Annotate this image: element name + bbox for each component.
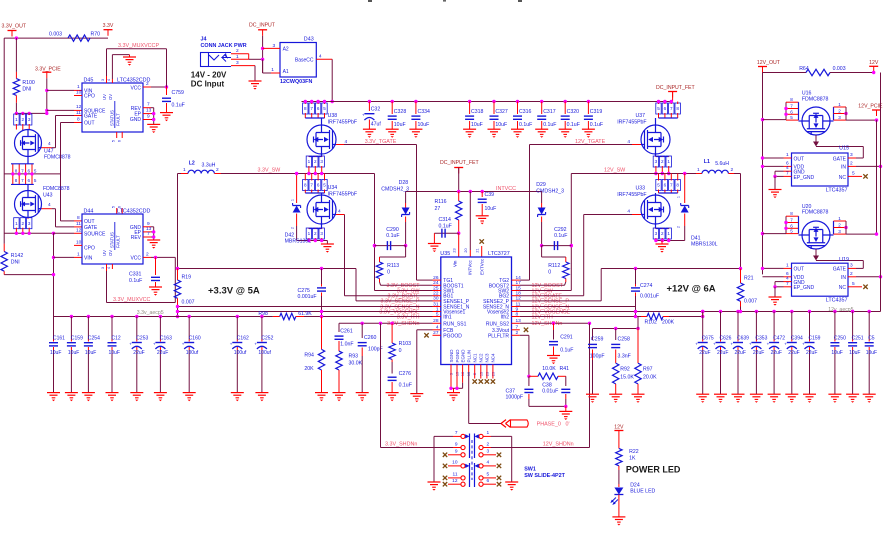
svg-text:22uF: 22uF — [717, 350, 728, 356]
capacitor C291 0.1uF — [553, 323, 555, 330]
ground — [785, 393, 798, 395]
svg-text:7: 7 — [786, 170, 789, 176]
svg-text:FAULT: FAULT — [116, 113, 121, 126]
svg-text:C161: C161 — [53, 335, 65, 341]
svg-text:L1: L1 — [704, 159, 710, 165]
pin J4 1 — [231, 58, 249, 60]
svg-text:0.1uF: 0.1uF — [543, 122, 556, 128]
transistor U47 FDMC8878 — [22, 129, 24, 132]
svg-text:0.003: 0.003 — [49, 32, 62, 38]
svg-text:0.001uF: 0.001uF — [640, 294, 659, 300]
svg-text:BaseCC: BaseCC — [295, 58, 314, 64]
pins D44 right GND EP REV — [143, 226, 151, 228]
svg-text:OUT: OUT — [794, 267, 805, 273]
pin EXTVCC 21 no connect — [481, 246, 483, 257]
svg-text:3.3V_MUXVCC: 3.3V_MUXVCC — [113, 297, 151, 303]
svg-text:5: 5 — [487, 472, 490, 478]
capacitor C318 10uF — [468, 100, 471, 103]
svg-text:PHASE_0: PHASE_0 — [537, 421, 561, 427]
wire RUN_SS1 line — [339, 322, 433, 324]
svg-text:GATE: GATE — [84, 114, 98, 120]
svg-text:A2: A2 — [283, 47, 289, 53]
pin boxes U47 1 2 3 — [14, 114, 19, 125]
svg-text:NC: NC — [839, 285, 847, 291]
svg-text:0.1uF: 0.1uF — [560, 348, 573, 354]
ground — [47, 392, 60, 394]
pin U19 GND 4 EP_GND 7 — [784, 281, 792, 283]
svg-text:3: 3 — [236, 60, 239, 66]
svg-text:7: 7 — [21, 168, 24, 173]
svg-text:0': 0' — [566, 421, 570, 427]
wire D44 OUT row — [74, 220, 82, 222]
ground — [750, 393, 763, 395]
svg-text:22uF: 22uF — [735, 350, 746, 356]
svg-text:24: 24 — [433, 280, 439, 286]
svg-text:20: 20 — [464, 248, 468, 252]
pin stub D44 CPO — [74, 244, 82, 246]
svg-text:23: 23 — [453, 248, 457, 252]
ground — [386, 392, 399, 394]
capacitor C261 1.0nF — [338, 323, 340, 332]
svg-text:10uF: 10uF — [471, 122, 483, 128]
svg-text:12CWQ03FN: 12CWQ03FN — [280, 79, 312, 85]
capacitor C317 0.1uF — [540, 100, 543, 103]
op-amp U19 LTC4357 — [792, 263, 849, 296]
svg-text:0.003: 0.003 — [833, 66, 846, 72]
svg-text:1: 1 — [183, 167, 186, 173]
pin U19 OUT 1 — [784, 267, 792, 269]
svg-text:C319: C319 — [590, 109, 603, 115]
svg-text:3: 3 — [320, 159, 323, 164]
pin stub D45 CPO — [74, 95, 82, 97]
wire U43 source row to D44 SOURCE — [4, 232, 53, 234]
wire right edge 12V vertical — [880, 73, 882, 312]
svg-text:D44: D44 — [84, 209, 94, 215]
svg-text:9: 9 — [147, 114, 150, 120]
resistor R94 20K — [321, 317, 323, 350]
ground — [255, 392, 268, 394]
svg-text:3: 3 — [273, 43, 276, 49]
svg-text:5: 5 — [852, 170, 855, 176]
svg-text:4: 4 — [48, 202, 51, 208]
svg-text:5: 5 — [112, 206, 116, 208]
svg-text:2: 2 — [216, 167, 219, 173]
svg-text:12V_PCIE: 12V_PCIE — [858, 104, 883, 110]
pin 18 BG2 — [512, 295, 520, 297]
svg-text:R112: R112 — [548, 263, 560, 269]
svg-text:0.007: 0.007 — [182, 300, 195, 306]
wire 12V SHDN down to switch — [589, 323, 591, 447]
resistor R116 27 — [458, 192, 460, 202]
svg-text:C274: C274 — [640, 283, 653, 289]
no connect marks SW1 right — [497, 453, 501, 457]
svg-text:1: 1 — [838, 216, 841, 221]
switch body SW1 — [470, 434, 475, 459]
svg-text:STATUS: STATUS — [110, 110, 115, 126]
resistor R142 DNI — [3, 244, 5, 252]
wire U43 gate — [42, 208, 52, 210]
svg-text:C259: C259 — [591, 337, 604, 343]
resistor R92 15.0K — [613, 363, 619, 384]
svg-text:2: 2 — [146, 81, 149, 87]
svg-text:R22: R22 — [629, 449, 639, 455]
pin 5 Ith1 — [433, 316, 441, 318]
svg-text:PGOOD: PGOOD — [443, 333, 462, 339]
diode D42 MBRS130L — [296, 174, 298, 204]
svg-text:2: 2 — [850, 160, 853, 166]
svg-text:C316: C316 — [519, 109, 532, 115]
svg-text:C12: C12 — [112, 335, 121, 341]
wire ITH/bus line segment right of R98 — [304, 316, 433, 318]
svg-text:0.01uF: 0.01uF — [542, 389, 558, 395]
svg-text:D43: D43 — [304, 37, 314, 43]
svg-text:RUN_SS2: RUN_SS2 — [486, 321, 509, 327]
svg-text:EXTVcc: EXTVcc — [480, 258, 485, 275]
ground — [130, 392, 143, 394]
svg-text:DC Input: DC Input — [191, 80, 225, 89]
svg-text:+: + — [713, 341, 716, 346]
pin U15 VDD 6 — [784, 165, 792, 167]
wire — [4, 37, 108, 39]
svg-text:+: + — [731, 341, 734, 346]
power flag 12V_OUT — [758, 66, 767, 68]
svg-text:3.3V_OUT: 3.3V_OUT — [2, 24, 27, 30]
svg-text:+: + — [254, 341, 257, 346]
svg-text:6: 6 — [28, 168, 31, 173]
svg-text:R41: R41 — [560, 366, 570, 372]
ground — [586, 393, 599, 395]
svg-text:LTC3727: LTC3727 — [488, 251, 510, 257]
ground — [106, 392, 119, 394]
capacitor C259 100pF — [592, 329, 594, 341]
node D44 VIN row — [52, 256, 55, 259]
svg-text:8: 8 — [15, 168, 18, 173]
svg-text:GATE: GATE — [833, 267, 847, 273]
op-amp U15 LTC4357 — [792, 153, 849, 186]
svg-text:7: 7 — [670, 106, 673, 111]
svg-text:7: 7 — [790, 218, 793, 223]
svg-text:7: 7 — [516, 325, 519, 331]
wire SENSE2_N — [520, 306, 636, 308]
pin D43 A1 — [262, 59, 264, 73]
wire BG2 pin — [520, 295, 584, 297]
power flag 3.3V — [104, 29, 113, 31]
capacitor C32 47uf — [368, 100, 371, 103]
pin 12 SENSE2_P — [512, 300, 520, 302]
svg-text:12: 12 — [452, 478, 458, 484]
svg-text:22uF: 22uF — [771, 350, 782, 356]
ground — [183, 392, 196, 394]
ground — [732, 393, 745, 395]
resistor R41 10.0K — [527, 375, 530, 378]
pin 4 FCB — [433, 329, 441, 331]
svg-text:0.1uF: 0.1uF — [439, 224, 452, 230]
ground — [123, 56, 136, 58]
svg-text:+: + — [802, 341, 805, 346]
svg-text:27: 27 — [433, 330, 439, 336]
ground — [696, 393, 709, 395]
wire comp row 12V — [593, 328, 639, 330]
svg-text:12V_OUT: 12V_OUT — [757, 60, 781, 66]
ground — [333, 392, 346, 394]
svg-text:7: 7 — [310, 183, 313, 188]
svg-text:22uF: 22uF — [788, 350, 799, 356]
svg-text:22uF: 22uF — [753, 350, 764, 356]
svg-text:MBRS130L: MBRS130L — [285, 238, 312, 244]
svg-text:IRF7455PbF: IRF7455PbF — [328, 120, 357, 126]
pin 2 PLLFLTR — [512, 334, 520, 336]
svg-text:BLUE LED: BLUE LED — [630, 488, 655, 494]
wire U47 gate — [42, 147, 52, 149]
svg-text:6: 6 — [790, 223, 793, 228]
power flag 12V — [869, 65, 878, 67]
svg-text:8: 8 — [516, 311, 519, 317]
svg-text:3: 3 — [838, 229, 841, 234]
svg-text:1000pF: 1000pF — [506, 395, 524, 401]
svg-text:47uf: 47uf — [371, 122, 382, 128]
wire DC_INPUT vertical — [262, 36, 264, 73]
svg-text:22uF: 22uF — [699, 350, 710, 356]
svg-text:10: 10 — [76, 239, 82, 245]
svg-text:7: 7 — [147, 102, 150, 108]
pin 14 TG2 — [512, 279, 520, 281]
svg-text:+: + — [695, 341, 698, 346]
svg-text:NC1: NC1 — [473, 353, 478, 362]
wire TG2 — [520, 279, 530, 281]
svg-text:0.1uF: 0.1uF — [386, 233, 399, 239]
svg-text:C252: C252 — [261, 335, 273, 341]
svg-text:+3.3V @ 5A: +3.3V @ 5A — [208, 286, 260, 297]
ground — [428, 481, 441, 483]
svg-text:8: 8 — [304, 106, 307, 111]
wire R19 bottom to bus — [177, 307, 179, 317]
svg-text:4: 4 — [436, 325, 439, 331]
svg-text:+: + — [362, 113, 365, 118]
svg-text:C159: C159 — [809, 335, 821, 341]
svg-text:6: 6 — [664, 106, 667, 111]
svg-text:STATUS: STATUS — [110, 232, 115, 248]
wire 12V ITH line — [520, 316, 641, 318]
capacitor C759 0.1uF — [165, 85, 168, 88]
svg-text:0.1uF: 0.1uF — [172, 103, 185, 109]
pin 8 Ith2 — [512, 316, 520, 318]
wire ITH to VOSENSE join — [701, 315, 704, 318]
svg-text:6: 6 — [790, 109, 793, 114]
ground — [559, 410, 572, 412]
svg-text:27: 27 — [435, 206, 441, 212]
svg-text:61.9K: 61.9K — [298, 311, 312, 317]
svg-text:2: 2 — [291, 227, 295, 229]
svg-text:25: 25 — [433, 285, 439, 291]
ground — [846, 393, 859, 395]
svg-text:1.0nF: 1.0nF — [340, 341, 353, 347]
pin boxes U43 1 2 3 — [27, 218, 29, 219]
ground — [82, 392, 95, 394]
pin J4 3 — [231, 65, 255, 67]
svg-text:SW1: SW1 — [524, 467, 536, 473]
wire D45 OUT to U47/U43 node — [74, 122, 82, 124]
pin stubs D44 top STATUS FAULT — [116, 208, 118, 214]
diode D24 BLUE LED — [618, 470, 620, 484]
svg-text:8: 8 — [676, 183, 679, 188]
svg-text:10uF: 10uF — [866, 350, 877, 356]
title text remnant — [368, 0, 372, 2]
svg-text:2: 2 — [22, 221, 25, 226]
svg-text:R97: R97 — [643, 367, 653, 373]
svg-text:EP_GND: EP_GND — [794, 175, 815, 181]
wire FCB to ground — [417, 329, 433, 331]
svg-text:10uF: 10uF — [85, 350, 96, 356]
svg-text:IRF7455PbF: IRF7455PbF — [617, 192, 646, 198]
capacitor C327 10uF — [492, 100, 495, 103]
svg-text:1K: 1K — [629, 456, 636, 462]
svg-text:Ith1: Ith1 — [443, 315, 452, 321]
pin 13 RUN_SS2 — [512, 322, 520, 324]
svg-text:2: 2 — [314, 231, 317, 236]
svg-text:C38: C38 — [542, 383, 552, 389]
wire U38 gate 3.3V_TGATE — [336, 144, 344, 146]
ground — [160, 112, 173, 114]
svg-text:PGND: PGND — [455, 349, 460, 363]
ground — [547, 355, 560, 357]
svg-text:DNI: DNI — [11, 260, 20, 266]
transistor U38 IRF7455PbF — [303, 103, 308, 114]
resistor R98 61.9K — [273, 316, 280, 318]
svg-text:1: 1 — [838, 102, 841, 107]
svg-text:POWER LED: POWER LED — [626, 464, 681, 474]
svg-text:C160: C160 — [189, 335, 201, 341]
wire main bus 3.3V — [54, 316, 273, 318]
svg-text:SGND: SGND — [449, 349, 454, 363]
svg-text:DC_INPUT_FET: DC_INPUT_FET — [656, 85, 695, 91]
svg-text:NC4: NC4 — [491, 353, 496, 362]
capacitor C160 100uf — [188, 315, 191, 318]
svg-text:R113: R113 — [387, 263, 399, 269]
svg-text:1: 1 — [667, 159, 670, 164]
svg-text:4: 4 — [786, 276, 789, 282]
capacitor C639 22uF — [736, 310, 739, 313]
svg-text:C276: C276 — [399, 371, 412, 377]
svg-text:10.0K: 10.0K — [542, 366, 556, 372]
svg-text:3: 3 — [320, 231, 323, 236]
svg-text:C327: C327 — [495, 109, 508, 115]
svg-text:OV: OV — [108, 250, 113, 256]
svg-text:+: + — [129, 341, 132, 346]
svg-text:OUT: OUT — [794, 156, 805, 162]
svg-text:100uf: 100uf — [186, 350, 199, 356]
svg-text:10uF: 10uF — [485, 206, 497, 212]
svg-text:INTVCC: INTVCC — [496, 186, 516, 192]
svg-text:20.0K: 20.0K — [643, 375, 657, 381]
svg-text:FDMC8878: FDMC8878 — [43, 186, 70, 192]
pin D43 4 BaseCC out — [316, 58, 332, 60]
svg-text:14V - 20V: 14V - 20V — [191, 71, 227, 80]
pins NC1-NC4 no connect — [474, 365, 476, 379]
pin 28 RUN_SS1 — [433, 322, 441, 324]
svg-text:12V_ITH: 12V_ITH — [532, 314, 553, 320]
capacitor C37 1000pF — [528, 376, 530, 386]
svg-text:FDMC8878: FDMC8878 — [802, 210, 829, 216]
svg-text:SW SLIDE-4P2T: SW SLIDE-4P2T — [524, 473, 565, 479]
svg-text:U19: U19 — [839, 257, 849, 263]
svg-text:+12V @ 6A: +12V @ 6A — [667, 284, 716, 295]
wire R21 bottom — [740, 307, 742, 312]
capacitor C162 100uf — [236, 315, 239, 318]
svg-text:MBRS130L: MBRS130L — [691, 242, 718, 248]
svg-text:FAULT: FAULT — [116, 235, 121, 248]
svg-text:2: 2 — [516, 330, 519, 336]
ground — [582, 128, 595, 130]
capacitor C331 0.1uF — [154, 256, 157, 259]
wire BG1 pin — [345, 295, 433, 297]
svg-text:R103: R103 — [399, 341, 412, 347]
svg-text:C317: C317 — [543, 109, 556, 115]
wire INTVCC rail — [406, 191, 542, 193]
capacitor C38 0.01uF — [565, 376, 567, 386]
svg-text:5: 5 — [34, 178, 37, 183]
op-amp D45 LTC4352CDD — [82, 83, 143, 132]
svg-text:3.3V_MUXVCCP: 3.3V_MUXVCCP — [118, 43, 159, 49]
svg-text:10uF: 10uF — [495, 122, 507, 128]
svg-text:4: 4 — [627, 209, 630, 215]
svg-text:OUT: OUT — [84, 121, 95, 127]
wire RUN_SS2 line — [520, 322, 590, 324]
svg-text:R142: R142 — [11, 253, 24, 259]
op-amp D44 LTC4352CDD — [82, 214, 143, 264]
svg-text:4: 4 — [107, 79, 111, 81]
ground — [249, 80, 262, 82]
pin 26 TG1 — [433, 279, 441, 281]
ground — [476, 215, 489, 217]
svg-text:3: 3 — [838, 115, 841, 120]
svg-text:R94: R94 — [304, 353, 314, 359]
svg-text:5: 5 — [323, 106, 326, 111]
wire D43 to input rail — [331, 59, 333, 101]
svg-text:U37: U37 — [636, 113, 646, 119]
svg-text:7: 7 — [455, 430, 458, 436]
capacitor C251 10uF — [851, 310, 854, 313]
svg-text:8: 8 — [790, 97, 793, 102]
svg-text:1: 1 — [77, 84, 80, 90]
svg-text:U35: U35 — [440, 251, 450, 257]
resistor R113 0 — [405, 246, 407, 257]
svg-text:8: 8 — [15, 178, 18, 183]
svg-text:4: 4 — [338, 209, 341, 215]
svg-text:R21: R21 — [744, 276, 754, 282]
svg-text:2: 2 — [661, 159, 664, 164]
capacitor C472 22uF — [772, 310, 775, 313]
svg-text:22: 22 — [433, 291, 439, 297]
svg-text:R19: R19 — [182, 275, 192, 281]
svg-text:100uf: 100uf — [258, 350, 271, 356]
ground — [828, 393, 841, 395]
ground — [714, 393, 727, 395]
svg-text:5: 5 — [657, 183, 660, 188]
capacitor C316 0.1uF — [516, 100, 519, 103]
svg-text:5.6uH: 5.6uH — [715, 161, 729, 167]
ground — [363, 128, 376, 130]
svg-text:C291: C291 — [560, 335, 573, 341]
svg-text:5: 5 — [323, 183, 326, 188]
op-amp U35 LTC3727 — [441, 257, 512, 365]
svg-text:6: 6 — [487, 478, 490, 484]
svg-text:10uF: 10uF — [394, 122, 406, 128]
capacitor C274 0.001uF — [635, 269, 637, 285]
svg-text:10uF: 10uF — [50, 350, 61, 356]
svg-text:12V_SHDNn: 12V_SHDNn — [543, 442, 574, 448]
power flag 12V LED — [614, 430, 623, 432]
svg-text:1: 1 — [786, 262, 789, 268]
